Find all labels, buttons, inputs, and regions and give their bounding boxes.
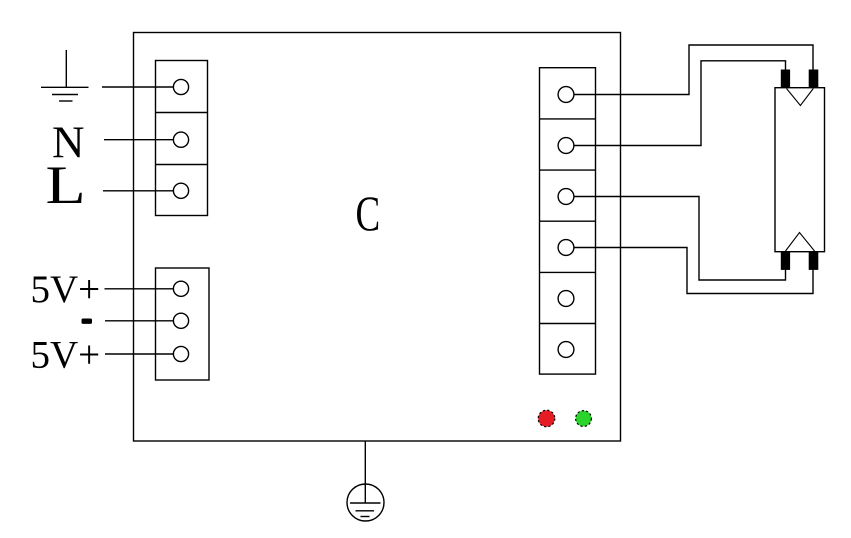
wire L to TB1 pin 3 xyxy=(103,190,181,192)
wire minus to TB2 pin 2 xyxy=(105,320,181,322)
lamp filament bottom (inverted chevron) xyxy=(786,233,815,252)
svg-text:L: L xyxy=(46,155,86,215)
TB1 pin 3 (L) xyxy=(173,183,188,198)
wire N to TB1 pin 2 xyxy=(104,139,181,141)
wire PE to TB1 pin 1 xyxy=(102,86,181,88)
green indicator LED xyxy=(576,411,592,427)
red indicator LED xyxy=(538,410,555,427)
svg-text:5V+: 5V+ xyxy=(31,268,101,311)
TB3 pin 2 xyxy=(558,138,574,154)
DC terminal block TB2 xyxy=(156,268,210,380)
output terminal block TB3 xyxy=(540,68,596,374)
TB1 pin 1 (PE) xyxy=(173,79,188,94)
lamp filament top (V chevron) xyxy=(787,89,814,106)
lamp top-right pin xyxy=(809,70,819,88)
label 5V+ (bottom) xyxy=(31,334,101,377)
svg-text:5V+: 5V+ xyxy=(31,334,101,377)
TB3 pin 1 xyxy=(558,87,574,103)
label L xyxy=(46,155,86,215)
lamp bottom-left pin xyxy=(781,252,790,270)
TB1 pin 2 (N) xyxy=(173,132,188,147)
lamp top-left pin xyxy=(781,70,790,88)
fluorescent lamp tube body xyxy=(775,88,825,252)
label C xyxy=(356,186,381,242)
earth ground symbol (mains PE) xyxy=(41,50,89,101)
TB3 pin 6 xyxy=(558,342,574,358)
wire TB3 pin 4 to lamp bottom-right pin xyxy=(566,248,813,294)
wire 5V+ to TB2 pin 1 xyxy=(105,288,182,290)
wire TB3 pin 1 to lamp top-right pin xyxy=(566,45,813,95)
controller C outline xyxy=(134,33,621,442)
TB2 pin 2 xyxy=(173,313,188,328)
svg-text:C: C xyxy=(356,186,381,242)
wire 5V+ to TB2 pin 3 xyxy=(105,353,181,355)
lamp bottom-right pin xyxy=(809,252,819,270)
protective earth symbol (bottom) xyxy=(347,441,384,521)
mains terminal block TB1 xyxy=(156,61,208,216)
TB2 pin 3 xyxy=(173,346,188,361)
label 5V+ (top) xyxy=(31,268,101,311)
wire TB3 pin 3 to lamp bottom-left pin xyxy=(566,197,786,281)
TB2 pin 1 xyxy=(173,281,188,296)
wire TB3 pin 2 to lamp top-left pin xyxy=(566,61,786,146)
TB3 pin 5 xyxy=(558,291,574,307)
TB3 pin 3 xyxy=(558,189,574,205)
TB3 pin 4 xyxy=(558,240,574,256)
label N xyxy=(52,118,85,168)
label minus xyxy=(82,319,93,324)
